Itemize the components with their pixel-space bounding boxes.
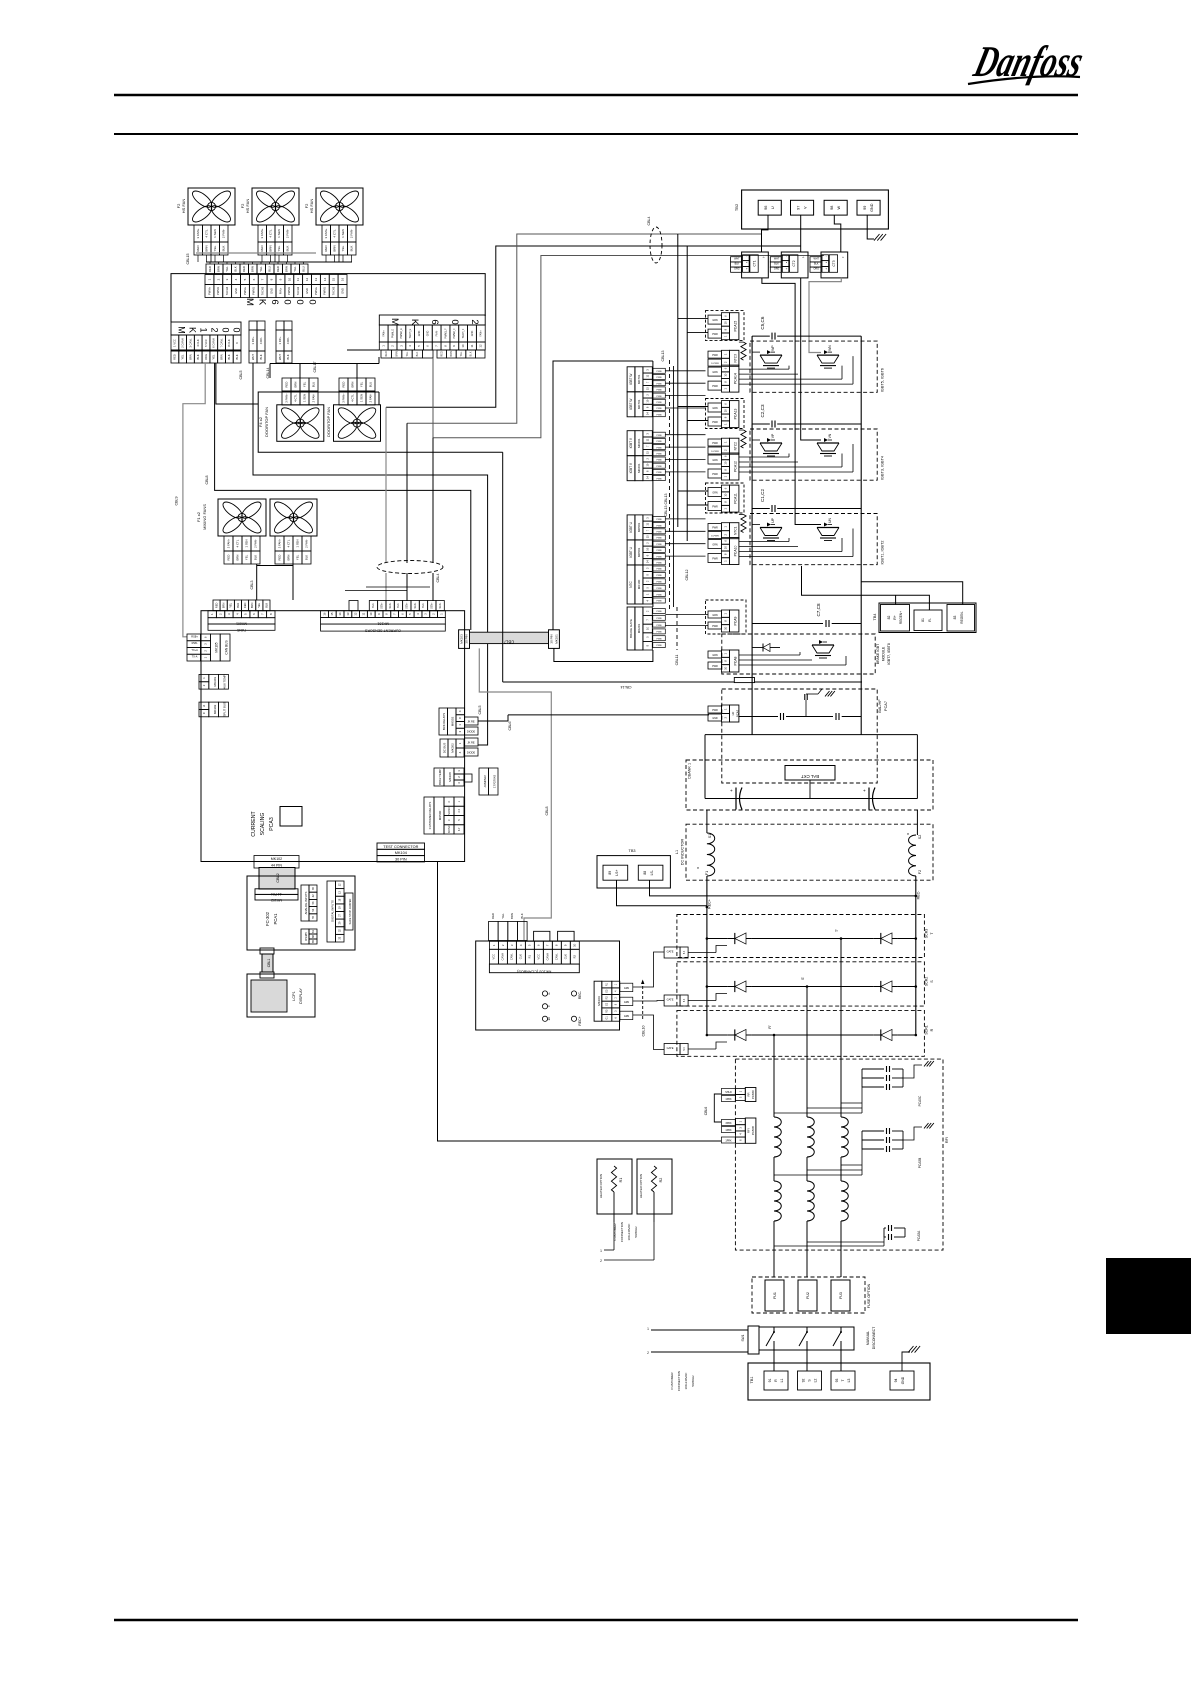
test point REC- bbox=[571, 991, 576, 996]
svg-text:LS+: LS+ bbox=[615, 870, 619, 876]
svg-text:BRN: BRN bbox=[293, 382, 297, 388]
svg-text:CBANK 1: CBANK 1 bbox=[688, 763, 692, 779]
svg-text:10: 10 bbox=[723, 626, 727, 630]
svg-text:PWB: PWB bbox=[657, 550, 663, 552]
svg-text:RED: RED bbox=[341, 382, 345, 388]
svg-text:BLK: BLK bbox=[259, 354, 263, 359]
box BAL/HF PCA7 bbox=[722, 689, 877, 783]
svg-text:YEL: YEL bbox=[295, 554, 299, 560]
wire phase V bbox=[407, 234, 762, 423]
svg-text:MK103: MK103 bbox=[460, 634, 464, 644]
svg-text:TEST CONNECTOR: TEST CONNECTOR bbox=[383, 845, 418, 849]
svg-text:A: A bbox=[202, 705, 206, 707]
svg-text:MK103 (CCANBUS): MK103 (CCANBUS) bbox=[516, 970, 551, 974]
svg-text:*: * bbox=[907, 833, 909, 839]
wire PCA10 emitters bbox=[739, 541, 789, 543]
svg-text:PWR: PWR bbox=[712, 333, 718, 336]
svg-text:1: 1 bbox=[647, 1327, 649, 1331]
connector MK502 BRK RELAYS bbox=[439, 708, 448, 735]
svg-text:SCR3: SCR3 bbox=[925, 929, 929, 939]
svg-text:R1: R1 bbox=[619, 1178, 623, 1183]
footer rule bbox=[114, 1619, 1078, 1621]
svg-text:FANS: FANS bbox=[236, 628, 246, 632]
svg-text:JK RE: JK RE bbox=[467, 741, 475, 745]
svg-text:1 SEN: 1 SEN bbox=[302, 394, 306, 402]
svg-text:BLK: BLK bbox=[814, 263, 819, 266]
svg-text:R2: R2 bbox=[659, 1178, 663, 1183]
svg-text:YEL: YEL bbox=[293, 266, 297, 272]
svg-text:K: K bbox=[256, 299, 267, 306]
svg-text:3 FAN+: 3 FAN+ bbox=[226, 538, 230, 548]
svg-text:WN: WN bbox=[828, 345, 832, 351]
svg-text:7 CANL: 7 CANL bbox=[219, 338, 223, 348]
svg-text:^: ^ bbox=[842, 255, 844, 260]
svg-text:CURRENT: CURRENT bbox=[251, 810, 257, 836]
svg-text:GRN: GRN bbox=[712, 459, 718, 462]
svg-text:1 SEN: 1 SEN bbox=[213, 229, 217, 238]
svg-text:NO/NC: NO/NC bbox=[448, 825, 451, 833]
terminal TB1 bbox=[748, 1363, 930, 1400]
svg-text:0: 0 bbox=[221, 327, 231, 332]
svg-text:FAN-: FAN- bbox=[435, 330, 438, 336]
fuse FU3 bbox=[831, 1280, 850, 1311]
fan F4 door-top 1 bbox=[277, 405, 324, 442]
svg-text:1 SEN: 1 SEN bbox=[359, 394, 363, 402]
svg-text:15: 15 bbox=[330, 612, 334, 616]
svg-text:PWB: PWB bbox=[657, 396, 663, 398]
wire PCA14 emitters bbox=[739, 368, 789, 370]
wire customer feed 2 bbox=[651, 1351, 748, 1353]
svg-text:16: 16 bbox=[322, 612, 326, 616]
svg-text:GRN: GRN bbox=[712, 614, 718, 617]
svg-text:81: 81 bbox=[921, 618, 925, 622]
svg-text:F1 x2: F1 x2 bbox=[196, 511, 201, 522]
svg-text:MK105: MK105 bbox=[215, 642, 219, 652]
svg-text:PCA5A: PCA5A bbox=[917, 1230, 921, 1241]
svg-text:Danfoss: Danfoss bbox=[969, 37, 1089, 86]
connector MK103 CCANBUS bbox=[489, 941, 498, 949]
svg-text:4 CTL: 4 CTL bbox=[235, 539, 239, 547]
svg-text:DISPLAY: DISPLAY bbox=[299, 988, 303, 1004]
svg-text:BLK: BLK bbox=[397, 603, 400, 608]
wire SCR2 row bbox=[707, 986, 728, 988]
svg-text:PWR: PWR bbox=[712, 527, 718, 530]
connector MK201 BRAKE GATE bbox=[627, 607, 635, 650]
svg-text:CT1: CT1 bbox=[752, 260, 756, 266]
wire rfi cap links bbox=[774, 1112, 862, 1114]
wire gate bus vertical bbox=[652, 361, 654, 607]
svg-text:GRN: GRN bbox=[624, 1001, 630, 1004]
svg-text:DOOR/TOP FAN: DOOR/TOP FAN bbox=[326, 407, 331, 437]
svg-text:3 FAN+: 3 FAN+ bbox=[260, 228, 264, 238]
board CCANBUS bbox=[476, 941, 620, 1030]
svg-text:RED: RED bbox=[324, 245, 328, 252]
box control card outline bbox=[201, 611, 465, 862]
svg-text:PWM1: PWM1 bbox=[287, 287, 291, 295]
svg-text:SAFE STOP JUMPER: SAFE STOP JUMPER bbox=[348, 898, 352, 924]
svg-text:VP: VP bbox=[771, 433, 775, 438]
svg-text:PWB: PWB bbox=[657, 563, 663, 565]
svg-text:V: V bbox=[804, 206, 808, 209]
svg-text:PWR: PWR bbox=[712, 558, 718, 561]
wire gate links bbox=[752, 351, 760, 353]
svg-text:CBL2: CBL2 bbox=[276, 873, 280, 883]
svg-text:R-: R- bbox=[928, 618, 932, 622]
thyristor SCR1 right bbox=[881, 1029, 892, 1040]
svg-text:PWB: PWB bbox=[657, 460, 663, 462]
svg-text:MK102: MK102 bbox=[271, 857, 282, 861]
test point circles bbox=[542, 991, 547, 996]
wire fan bus bbox=[196, 252, 316, 254]
connector HF PCA7 bbox=[721, 705, 729, 714]
svg-text:PCA10: PCA10 bbox=[733, 546, 737, 557]
svg-text:BLU: BLU bbox=[368, 382, 372, 387]
svg-text:3 FAN+: 3 FAN+ bbox=[284, 393, 288, 403]
svg-text:CBL6: CBL6 bbox=[508, 722, 512, 731]
wire CBL8 mk1200 to mk103 bbox=[215, 363, 471, 630]
svg-text:1PRK: 1PRK bbox=[725, 1129, 732, 1132]
svg-text:ORG: ORG bbox=[814, 268, 820, 271]
svg-text:LCP1: LCP1 bbox=[292, 991, 296, 1001]
wire CT2 out V bus bbox=[801, 278, 821, 440]
svg-text:GND: GND bbox=[427, 331, 430, 337]
wire gate links bbox=[752, 439, 760, 441]
svg-text:91: 91 bbox=[768, 1379, 772, 1383]
svg-text:4 CLK: 4 CLK bbox=[196, 339, 200, 346]
svg-text:PWB: PWB bbox=[657, 478, 663, 480]
svg-text:5 VCC: 5 VCC bbox=[204, 339, 208, 347]
svg-text:VCC: VCC bbox=[492, 954, 496, 960]
svg-text:FAN+: FAN+ bbox=[383, 330, 386, 337]
svg-text:TACH_E: TACH_E bbox=[409, 328, 412, 338]
svg-text:2: 2 bbox=[600, 1259, 602, 1263]
svg-text:82: 82 bbox=[887, 616, 891, 620]
thermistor NTC2 bbox=[721, 438, 729, 446]
svg-text:RED: RED bbox=[491, 913, 495, 919]
svg-text:97: 97 bbox=[797, 206, 801, 210]
svg-text:4 CTL: 4 CTL bbox=[350, 394, 354, 402]
wire fan drops bbox=[197, 255, 199, 262]
svg-text:PWM+: PWM+ bbox=[243, 287, 247, 295]
terminal TB2 96 U bbox=[758, 200, 781, 215]
svg-text:3 CANL: 3 CANL bbox=[188, 338, 192, 348]
svg-text:PWB: PWB bbox=[657, 611, 663, 613]
svg-text:1 DC+: 1 DC+ bbox=[278, 336, 282, 344]
svg-text:YEL: YEL bbox=[460, 351, 463, 356]
svg-text:1PRK: 1PRK bbox=[725, 1098, 732, 1101]
svg-text:PWM2_E: PWM2_E bbox=[400, 328, 403, 339]
svg-text:BRN: BRN bbox=[251, 266, 255, 272]
svg-text:11: 11 bbox=[296, 278, 300, 281]
connector MK102 44 PIN bbox=[254, 856, 299, 862]
svg-text:DOOR/TOP FAN: DOOR/TOP FAN bbox=[264, 407, 269, 437]
connector PCA15 bbox=[706, 311, 745, 341]
svg-text:+: + bbox=[746, 266, 748, 270]
connector PCA11 bbox=[706, 483, 745, 513]
connector PCA12 bbox=[721, 453, 729, 460]
wire TB3-88 to REC- bbox=[650, 880, 916, 896]
svg-text:L1: L1 bbox=[675, 850, 679, 854]
svg-text:SEN-: SEN- bbox=[439, 603, 442, 609]
svg-text:YEL: YEL bbox=[229, 602, 233, 607]
svg-text:R+: R+ bbox=[893, 615, 897, 619]
svg-text:PWB: PWB bbox=[657, 582, 663, 584]
svg-text:^: ^ bbox=[763, 255, 765, 260]
svg-text:PCA1: PCA1 bbox=[273, 913, 278, 925]
svg-text:▪: ▪ bbox=[746, 261, 747, 265]
svg-text:1: 1 bbox=[600, 1249, 602, 1253]
connector MK600 color cells bbox=[206, 264, 215, 274]
svg-text:WHT: WHT bbox=[814, 257, 820, 260]
svg-text:HS FAN: HS FAN bbox=[245, 199, 250, 214]
svg-text:BLK: BLK bbox=[774, 263, 779, 266]
svg-text:GND: GND bbox=[418, 331, 421, 337]
svg-text:RED: RED bbox=[385, 351, 388, 356]
svg-text:M: M bbox=[244, 298, 255, 306]
svg-text:BRN: BRN bbox=[333, 245, 337, 251]
transistor IGBT WN bbox=[817, 354, 839, 356]
wire phases to TB1 bbox=[773, 1350, 775, 1371]
connector gate SCR1 bbox=[664, 1044, 680, 1055]
svg-text:MK501: MK501 bbox=[637, 522, 641, 532]
svg-text:RFI: RFI bbox=[747, 1128, 751, 1133]
svg-text:SCR1: SCR1 bbox=[925, 1025, 929, 1035]
svg-text:10: 10 bbox=[723, 321, 727, 325]
fan F4 door-top 2 bbox=[334, 405, 381, 442]
svg-text:M: M bbox=[177, 326, 187, 334]
svg-text:2 FAN-: 2 FAN- bbox=[304, 539, 308, 548]
connector MK302 DC BUS bbox=[440, 739, 448, 757]
terminal TB2 98 W bbox=[824, 200, 847, 215]
svg-text:+: + bbox=[825, 266, 827, 270]
svg-text:2: 2 bbox=[647, 1351, 649, 1355]
svg-text:T': T' bbox=[835, 929, 839, 932]
wire sensor jogs bbox=[366, 586, 430, 588]
wire PCA12 emitters bbox=[739, 456, 789, 458]
svg-text:RED: RED bbox=[208, 266, 212, 272]
wire CBL14 vertical bbox=[502, 452, 504, 682]
svg-text:IGBT V: IGBT V bbox=[629, 462, 633, 473]
svg-text:PWB: PWB bbox=[657, 645, 663, 647]
test point REC+ bbox=[571, 1016, 576, 1021]
svg-text:+: + bbox=[786, 266, 788, 270]
connector SAFE STOP JUMPER bbox=[345, 893, 353, 930]
svg-text:10: 10 bbox=[461, 344, 465, 348]
svg-text:FU3: FU3 bbox=[839, 1292, 843, 1299]
wire CT3 out W bus gray bbox=[809, 278, 841, 353]
wire phase U bbox=[386, 246, 801, 407]
cable shield ellipse CBL4 bbox=[377, 561, 443, 574]
svg-text:-: - bbox=[746, 255, 747, 259]
svg-text:PWM+: PWM+ bbox=[207, 287, 211, 295]
svg-text:2: 2 bbox=[210, 327, 220, 332]
svg-text:11: 11 bbox=[361, 612, 365, 615]
svg-text:PWR: PWR bbox=[712, 506, 718, 509]
connector MK101 CURRENT SENSORS bbox=[349, 601, 358, 611]
svg-text:4 DC-: 4 DC- bbox=[259, 337, 263, 344]
bus rectifier right bbox=[915, 876, 917, 1035]
svg-text:MANUAL: MANUAL bbox=[866, 1331, 870, 1345]
svg-text:ORG: ORG bbox=[204, 354, 208, 360]
thyristor SCR2 left bbox=[735, 981, 746, 992]
wire PCA feed left B bbox=[686, 246, 688, 541]
svg-text:ORG: ORG bbox=[734, 268, 740, 271]
svg-text:GRN: GRN bbox=[624, 1015, 630, 1018]
capacitor group PCA5C bbox=[870, 1064, 872, 1113]
svg-text:TB4: TB4 bbox=[873, 614, 877, 621]
box SCR2 bbox=[677, 962, 925, 1006]
svg-text:YEL: YEL bbox=[225, 266, 229, 272]
transistor IGBT UP bbox=[760, 527, 782, 529]
svg-text:IGBT U: IGBT U bbox=[629, 521, 633, 532]
svg-text:CBL8: CBL8 bbox=[205, 476, 209, 485]
svg-text:PCA7: PCA7 bbox=[884, 701, 888, 711]
connector RR PCA5C bbox=[736, 1089, 746, 1095]
connector DC+ B bbox=[276, 321, 284, 330]
box CBANK 1 bbox=[686, 760, 933, 810]
box heater option R2 bbox=[637, 1159, 672, 1214]
thermistor NTC3 bbox=[721, 350, 729, 358]
svg-text:GRN: GRN bbox=[712, 492, 718, 495]
svg-text:PCA12: PCA12 bbox=[733, 461, 737, 472]
svg-text:88: 88 bbox=[643, 871, 647, 875]
svg-text:BRN: BRN bbox=[217, 266, 221, 272]
svg-text:WHT: WHT bbox=[251, 354, 255, 360]
fuse FU2 bbox=[798, 1280, 817, 1311]
svg-text:PWM+: PWM+ bbox=[314, 287, 318, 295]
terminal TB1 94 GND bbox=[890, 1371, 914, 1390]
svg-text:DC INDUCTOR: DC INDUCTOR bbox=[681, 838, 685, 865]
svg-text:GRN: GRN bbox=[712, 407, 718, 410]
svg-text:C1,C2: C1,C2 bbox=[760, 489, 765, 502]
svg-text:L1: L1 bbox=[780, 1379, 784, 1383]
svg-text:S': S' bbox=[801, 977, 805, 980]
svg-text:93: 93 bbox=[835, 1379, 839, 1383]
svg-text:2 FAN-: 2 FAN- bbox=[311, 394, 315, 403]
svg-text:10: 10 bbox=[723, 461, 727, 465]
svg-text:SHLD: SHLD bbox=[725, 1091, 732, 1094]
svg-text:10: 10 bbox=[723, 409, 727, 413]
svg-text:UP: UP bbox=[771, 517, 775, 522]
svg-text:GATE: GATE bbox=[667, 998, 674, 1002]
svg-text:YEL: YEL bbox=[213, 245, 217, 251]
svg-text:8 CLK: 8 CLK bbox=[227, 339, 231, 346]
svg-text:PWR: PWR bbox=[712, 665, 718, 668]
svg-text:BRN: BRN bbox=[350, 382, 354, 388]
connector MK701 IGBT W bbox=[627, 367, 635, 392]
svg-text:RED: RED bbox=[196, 245, 200, 252]
terminal TB1 92 bbox=[798, 1371, 822, 1390]
svg-text:CBL4: CBL4 bbox=[436, 574, 440, 583]
svg-text:BLK: BLK bbox=[735, 263, 740, 266]
wire TB3-89 to REC+ bbox=[617, 880, 707, 906]
capacitor group PCA5B bbox=[870, 1126, 872, 1175]
svg-text:3 FAN+: 3 FAN+ bbox=[277, 538, 281, 548]
svg-text:PWB: PWB bbox=[657, 447, 663, 449]
svg-text:T: T bbox=[841, 1379, 845, 1381]
svg-text:6: 6 bbox=[429, 319, 440, 324]
svg-text:▪: ▪ bbox=[786, 261, 787, 265]
svg-text:IGBT7, IGBT8: IGBT7, IGBT8 bbox=[887, 643, 891, 665]
svg-text:FAN+: FAN+ bbox=[278, 287, 282, 294]
svg-text:-: - bbox=[786, 255, 787, 259]
svg-text:BRN: BRN bbox=[188, 354, 192, 360]
svg-text:GRN: GRN bbox=[624, 987, 630, 990]
svg-text:YEL: YEL bbox=[406, 351, 409, 356]
svg-text:FU2: FU2 bbox=[806, 1292, 810, 1299]
svg-text:RED: RED bbox=[277, 555, 281, 561]
box heater option R1 bbox=[597, 1159, 632, 1214]
svg-text:BLK: BLK bbox=[234, 266, 238, 271]
svg-text:TACH4: TACH4 bbox=[225, 286, 229, 295]
svg-text:0: 0 bbox=[294, 299, 305, 304]
svg-text:BLK: BLK bbox=[469, 351, 472, 356]
svg-text:RED: RED bbox=[214, 602, 218, 608]
svg-text:4 CTL: 4 CTL bbox=[293, 394, 297, 402]
svg-text:1 SEN: 1 SEN bbox=[244, 539, 248, 547]
svg-text:YEL: YEL bbox=[212, 354, 216, 359]
svg-text:C: C bbox=[202, 712, 206, 714]
connector DIGITAL INPUTS bbox=[327, 881, 336, 942]
svg-text:BRAKE IGBT: BRAKE IGBT bbox=[876, 644, 880, 664]
wire long brk relay feed bbox=[508, 714, 709, 716]
wire MK109 to gates bbox=[633, 952, 664, 987]
inductor rfi top bbox=[774, 1117, 781, 1157]
svg-text:PCA3: PCA3 bbox=[269, 817, 275, 831]
box brake IGBT module bbox=[722, 634, 875, 674]
svg-text:C5,C6: C5,C6 bbox=[760, 316, 765, 329]
svg-text:MK701: MK701 bbox=[637, 399, 641, 409]
svg-text:3 FAN+: 3 FAN+ bbox=[324, 228, 328, 238]
svg-text:2 FAN-: 2 FAN- bbox=[350, 229, 354, 238]
wire PCA11 stubs bbox=[678, 490, 708, 492]
svg-text:BRN: BRN bbox=[219, 354, 223, 360]
transistor IGBT VP bbox=[760, 442, 782, 444]
svg-text:DIGITAL INPUTS: DIGITAL INPUTS bbox=[331, 900, 335, 922]
svg-text:UN: UN bbox=[828, 518, 832, 523]
connector gate SCR3 bbox=[664, 947, 680, 958]
svg-text:CBL6: CBL6 bbox=[704, 1107, 708, 1116]
inductor rfi bottom bbox=[774, 1181, 781, 1221]
connector MK600 bbox=[205, 275, 214, 285]
connector bracket B bbox=[558, 931, 575, 941]
svg-text:2 FAN-: 2 FAN- bbox=[222, 229, 226, 238]
svg-text:WHT: WHT bbox=[278, 354, 282, 360]
svg-text:NTC1: NTC1 bbox=[733, 526, 737, 535]
svg-text:CT2: CT2 bbox=[792, 260, 796, 266]
svg-text:PWB: PWB bbox=[657, 390, 663, 392]
svg-text:D-PWR: D-PWR bbox=[711, 363, 719, 365]
wire CBL7 to brake gate bbox=[554, 648, 653, 661]
svg-text:BRN: BRN bbox=[235, 555, 239, 561]
svg-text:RED: RED bbox=[276, 266, 280, 272]
svg-text:GND: GND bbox=[340, 288, 344, 294]
svg-text:2 FAN-: 2 FAN- bbox=[253, 539, 257, 548]
wire PCA8 links bbox=[739, 654, 800, 656]
svg-text:BAL CKT: BAL CKT bbox=[801, 774, 819, 779]
svg-text:PWR: PWR bbox=[712, 473, 718, 476]
terminal TB2 bbox=[742, 190, 889, 229]
connector MK100 NTC bbox=[627, 565, 635, 604]
svg-text:BRN: BRN bbox=[222, 602, 226, 608]
switch pole bbox=[806, 1327, 808, 1332]
svg-text:BLK: BLK bbox=[304, 555, 308, 560]
board FC-302 PCA1 bbox=[247, 876, 355, 950]
svg-text:30 PIN: 30 PIN bbox=[395, 858, 407, 862]
box IGBT module IGBT3, IGBT4 bbox=[750, 429, 877, 480]
svg-text:TB2: TB2 bbox=[734, 203, 739, 211]
fan F1 mixing 1 bbox=[218, 499, 266, 536]
